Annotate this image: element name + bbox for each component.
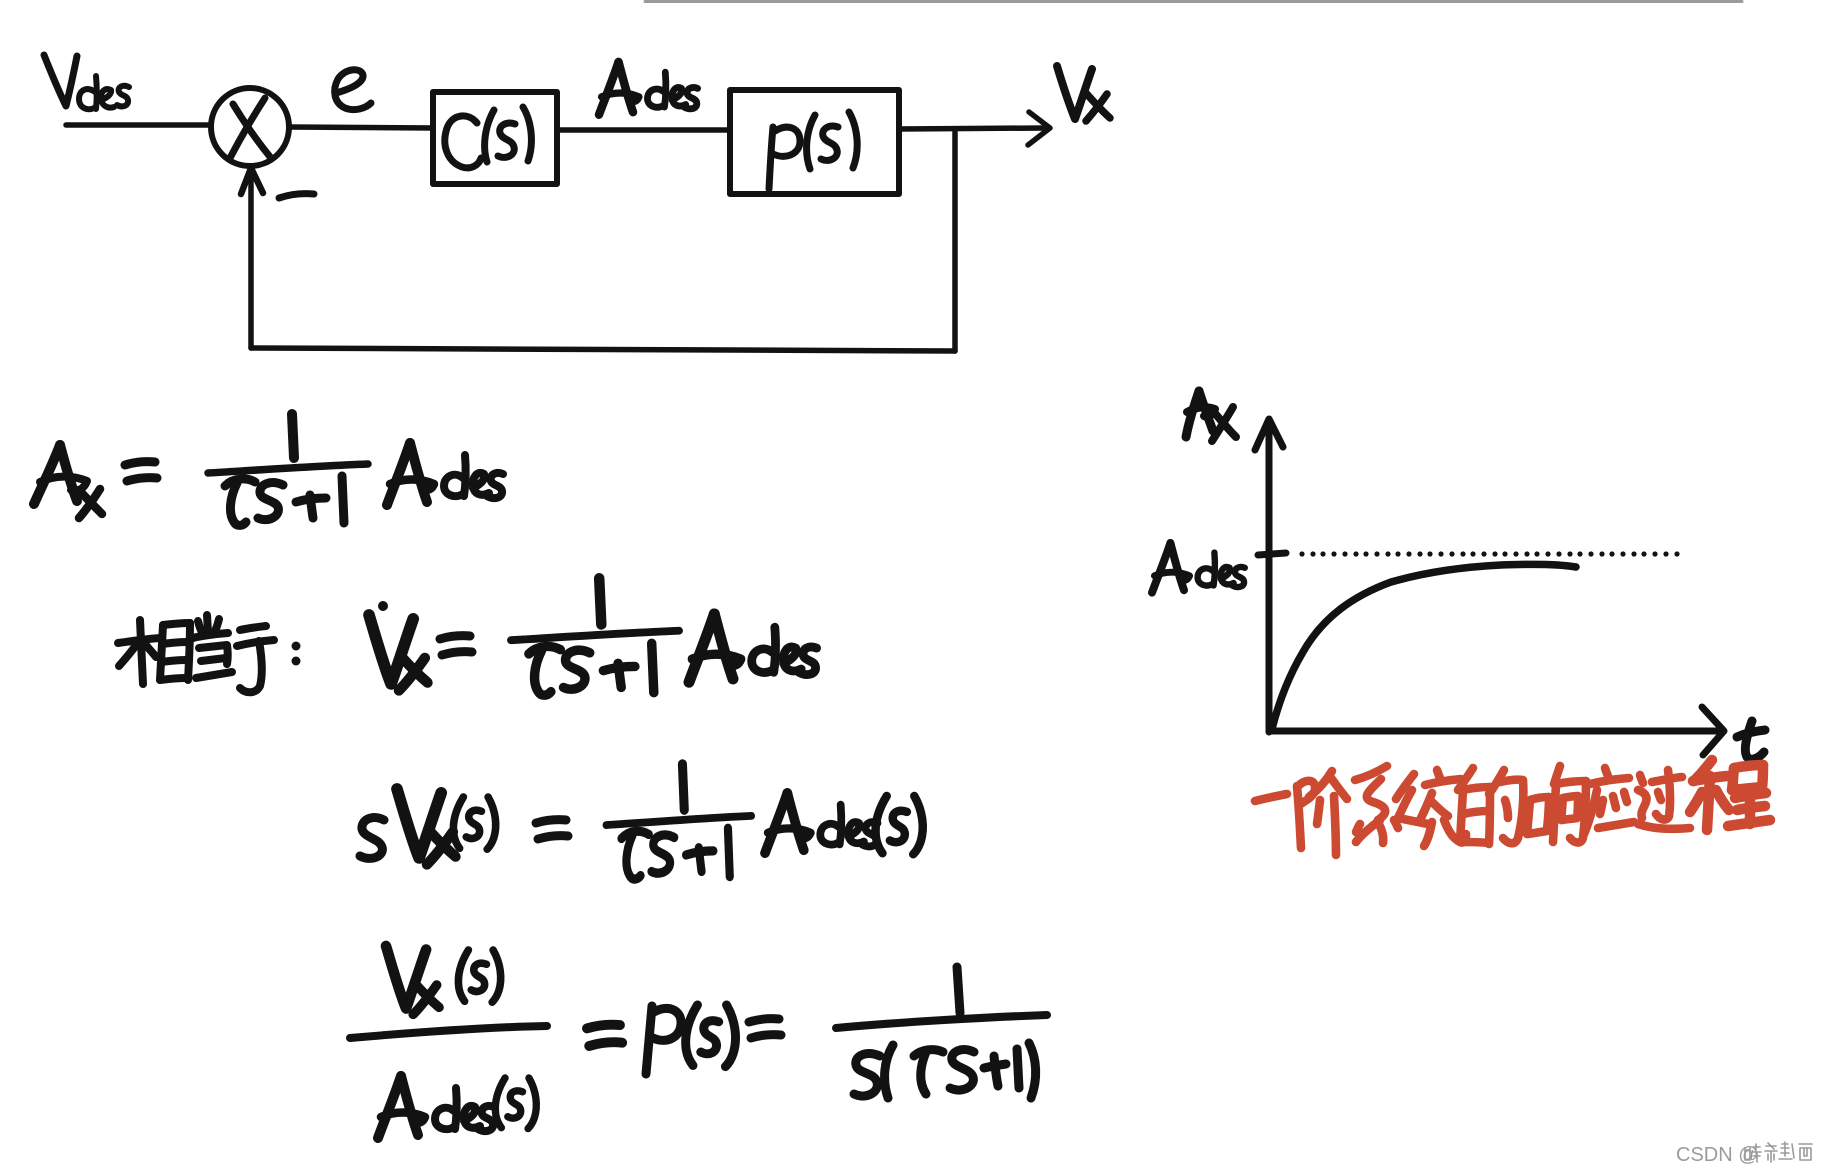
fraction bar right bbox=[836, 1015, 1047, 1028]
block C(s) box bbox=[433, 92, 557, 184]
term Ades bbox=[387, 443, 503, 505]
fraction 1/(tS+1) bbox=[511, 578, 679, 695]
equals bbox=[125, 462, 157, 481]
hanzi ying bbox=[1605, 768, 1608, 776]
tick Ades bbox=[1258, 553, 1286, 555]
term p bbox=[646, 1006, 652, 1074]
x axis arrowhead bbox=[1702, 707, 1724, 755]
fraction 1/(tS+1) bbox=[606, 764, 752, 879]
label Ades after C(s) bbox=[599, 62, 698, 115]
parens (s) bbox=[876, 796, 923, 854]
response curve bbox=[1272, 564, 1576, 729]
x axis bbox=[1269, 728, 1716, 735]
y axis bbox=[1266, 420, 1273, 732]
equals bbox=[536, 820, 568, 839]
wire feedback down bbox=[952, 129, 958, 351]
term (s) bbox=[686, 1005, 736, 1067]
hanzi yu bbox=[240, 626, 266, 630]
denominator (s) bbox=[495, 1078, 536, 1129]
minus sign bbox=[279, 194, 314, 198]
dotted line Ades level bbox=[1299, 551, 1679, 556]
term Ades bbox=[689, 614, 817, 682]
fraction bar bbox=[350, 1026, 547, 1038]
wire feedback up bbox=[248, 172, 254, 348]
label Ax bbox=[1186, 391, 1199, 437]
watermark hanzi wu-xi-di-xi bbox=[1745, 1142, 1812, 1162]
hanzi dang bbox=[207, 615, 208, 632]
arrowhead output Vx bbox=[1028, 112, 1050, 145]
term Ades bbox=[765, 793, 878, 853]
hanzi yi bbox=[1255, 794, 1287, 801]
denominator s(ts+1) bbox=[854, 1054, 880, 1096]
wire junction to C(s) bbox=[290, 127, 433, 128]
term Ax bbox=[34, 445, 60, 504]
wire feedback bottom bbox=[251, 348, 955, 351]
label e error bbox=[335, 70, 371, 110]
label Vdes input bbox=[44, 55, 77, 106]
svg-text:CSDN @: CSDN @ bbox=[1676, 1144, 1759, 1166]
y axis arrowhead bbox=[1255, 419, 1283, 450]
equals bbox=[440, 636, 472, 655]
fraction 1/(tS+1) bbox=[208, 414, 368, 525]
X inside summing junction bbox=[233, 104, 271, 158]
hanzi xiang bbox=[118, 638, 160, 643]
numerator 1 bbox=[957, 967, 960, 1013]
parens (s) bbox=[453, 797, 495, 849]
summing junction circle bbox=[211, 88, 289, 166]
wire Vdes input bbox=[66, 122, 211, 128]
top window edge artifact bbox=[645, 0, 1742, 3]
hanzi xi bbox=[1355, 766, 1387, 780]
numerator (s) bbox=[458, 950, 500, 1002]
label Ades bbox=[1152, 543, 1245, 593]
block p(s) box bbox=[730, 90, 899, 194]
hanzi xiang2 bbox=[1527, 800, 1530, 834]
wire C(s) to p(s) bbox=[557, 127, 730, 133]
label Vx output bbox=[1057, 66, 1092, 119]
equals bbox=[587, 1025, 622, 1046]
term Vx bbox=[397, 789, 456, 864]
label p(s) in box bbox=[769, 127, 773, 189]
equals bbox=[749, 1019, 781, 1038]
hanzi tong bbox=[1396, 774, 1414, 799]
label t bbox=[1745, 721, 1764, 759]
term s bbox=[360, 818, 384, 859]
term Vx bbox=[369, 615, 428, 690]
label C(s) in box bbox=[445, 116, 481, 168]
colon bbox=[292, 642, 301, 651]
arrowhead into summing junction bbox=[241, 168, 263, 194]
hanzi de bbox=[1458, 768, 1473, 790]
numerator Vx bbox=[386, 946, 439, 1014]
wire p(s) to output arrow bbox=[899, 128, 1044, 129]
hanzi guo bbox=[1652, 777, 1682, 782]
hanzi cheng bbox=[1690, 760, 1770, 830]
denominator Ades bbox=[378, 1076, 494, 1138]
dot of Vx-dot bbox=[378, 601, 388, 611]
hanzi jie bbox=[1297, 786, 1301, 848]
